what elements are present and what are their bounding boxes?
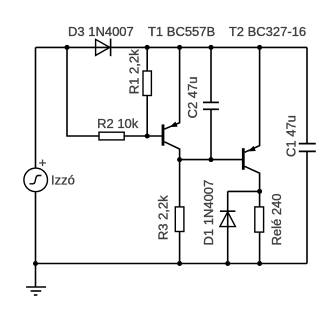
diode D1 bbox=[220, 212, 236, 227]
node T1 collector / R3 top bbox=[177, 157, 182, 162]
wire D1 vertical bbox=[227, 191, 229, 263]
capacitor C1 bbox=[299, 143, 316, 145]
wire D1 top link bbox=[228, 190, 260, 192]
svg-text:R1 2,2k: R1 2,2k bbox=[126, 49, 141, 94]
node T2 collector / D1 / relay top bbox=[257, 189, 262, 194]
wire T2 emitter bbox=[245, 47, 260, 152]
wire R1 top bbox=[146, 47, 148, 71]
wire R2 branch from top rail bbox=[67, 47, 99, 136]
svg-text:R3 2,2k: R3 2,2k bbox=[156, 195, 171, 240]
node bottom rail / relay bottom bbox=[257, 261, 262, 266]
wire left vertical lower bbox=[35, 192, 37, 264]
wire right vertical lower bbox=[306, 151, 308, 263]
wire T1 emitter bbox=[164, 47, 179, 129]
svg-text:D3 1N4007: D3 1N4007 bbox=[68, 24, 134, 39]
transistor T1 emitter arrow bbox=[170, 122, 177, 127]
relay coil Relé 240 bbox=[255, 207, 264, 232]
wire C2 top bbox=[210, 47, 212, 102]
node top rail / R2 branch bbox=[65, 45, 70, 50]
lamp source Izzó bbox=[24, 168, 48, 192]
wire right vertical upper bbox=[306, 47, 308, 143]
ground bbox=[35, 264, 37, 287]
svg-text:+: + bbox=[39, 155, 47, 170]
svg-text:Izzó: Izzó bbox=[51, 173, 75, 188]
svg-text:Relé 240: Relé 240 bbox=[269, 193, 284, 245]
wire left vertical upper bbox=[35, 47, 37, 168]
svg-text:T1 BC557B: T1 BC557B bbox=[148, 24, 215, 39]
node bottom rail / lamp-ground bbox=[33, 261, 38, 266]
wire R3 bottom bbox=[179, 232, 181, 264]
diode D3 bbox=[96, 39, 110, 55]
node top rail / R1 top bbox=[145, 45, 150, 50]
wire T1 collector to T2 base bbox=[180, 159, 243, 161]
wire T1 collector bbox=[164, 142, 179, 160]
resistor R3 bbox=[175, 207, 184, 232]
node top rail / T1 emitter bbox=[177, 45, 182, 50]
wire relay bottom bbox=[259, 232, 261, 263]
svg-text:T2 BC327-16: T2 BC327-16 bbox=[229, 24, 306, 39]
svg-text:R2 10k: R2 10k bbox=[97, 116, 139, 131]
svg-text:C2 47u: C2 47u bbox=[185, 76, 200, 118]
wire relay top bbox=[259, 191, 261, 207]
resistor R1 bbox=[143, 71, 151, 96]
node C2 bottom / T2 base wire bbox=[209, 157, 214, 162]
wire C2 bottom bbox=[210, 109, 212, 159]
node top rail / T2 emitter bbox=[257, 45, 262, 50]
wire top rail bbox=[36, 46, 308, 48]
wire R2 to T1 base bbox=[124, 135, 162, 137]
wire R1 bottom bbox=[146, 96, 148, 137]
node bottom rail / R3 bottom bbox=[177, 261, 182, 266]
svg-text:C1 47u: C1 47u bbox=[283, 115, 298, 157]
transistor T2 emitter arrow bbox=[249, 146, 256, 151]
node top rail / C2 top bbox=[209, 45, 214, 50]
resistor R2 bbox=[99, 132, 124, 140]
wire T2 collector bbox=[245, 166, 260, 191]
wire R3 top bbox=[179, 160, 181, 207]
svg-text:D1 1N4007: D1 1N4007 bbox=[201, 180, 216, 246]
transistor T2 base bar bbox=[242, 148, 245, 170]
node R1 bottom / R2 right / T1 base bbox=[145, 134, 150, 139]
capacitor C2 bbox=[203, 101, 219, 103]
transistor T1 base bar bbox=[162, 124, 165, 145]
node bottom rail / D1 bottom bbox=[225, 261, 230, 266]
wire bottom rail bbox=[36, 263, 308, 265]
